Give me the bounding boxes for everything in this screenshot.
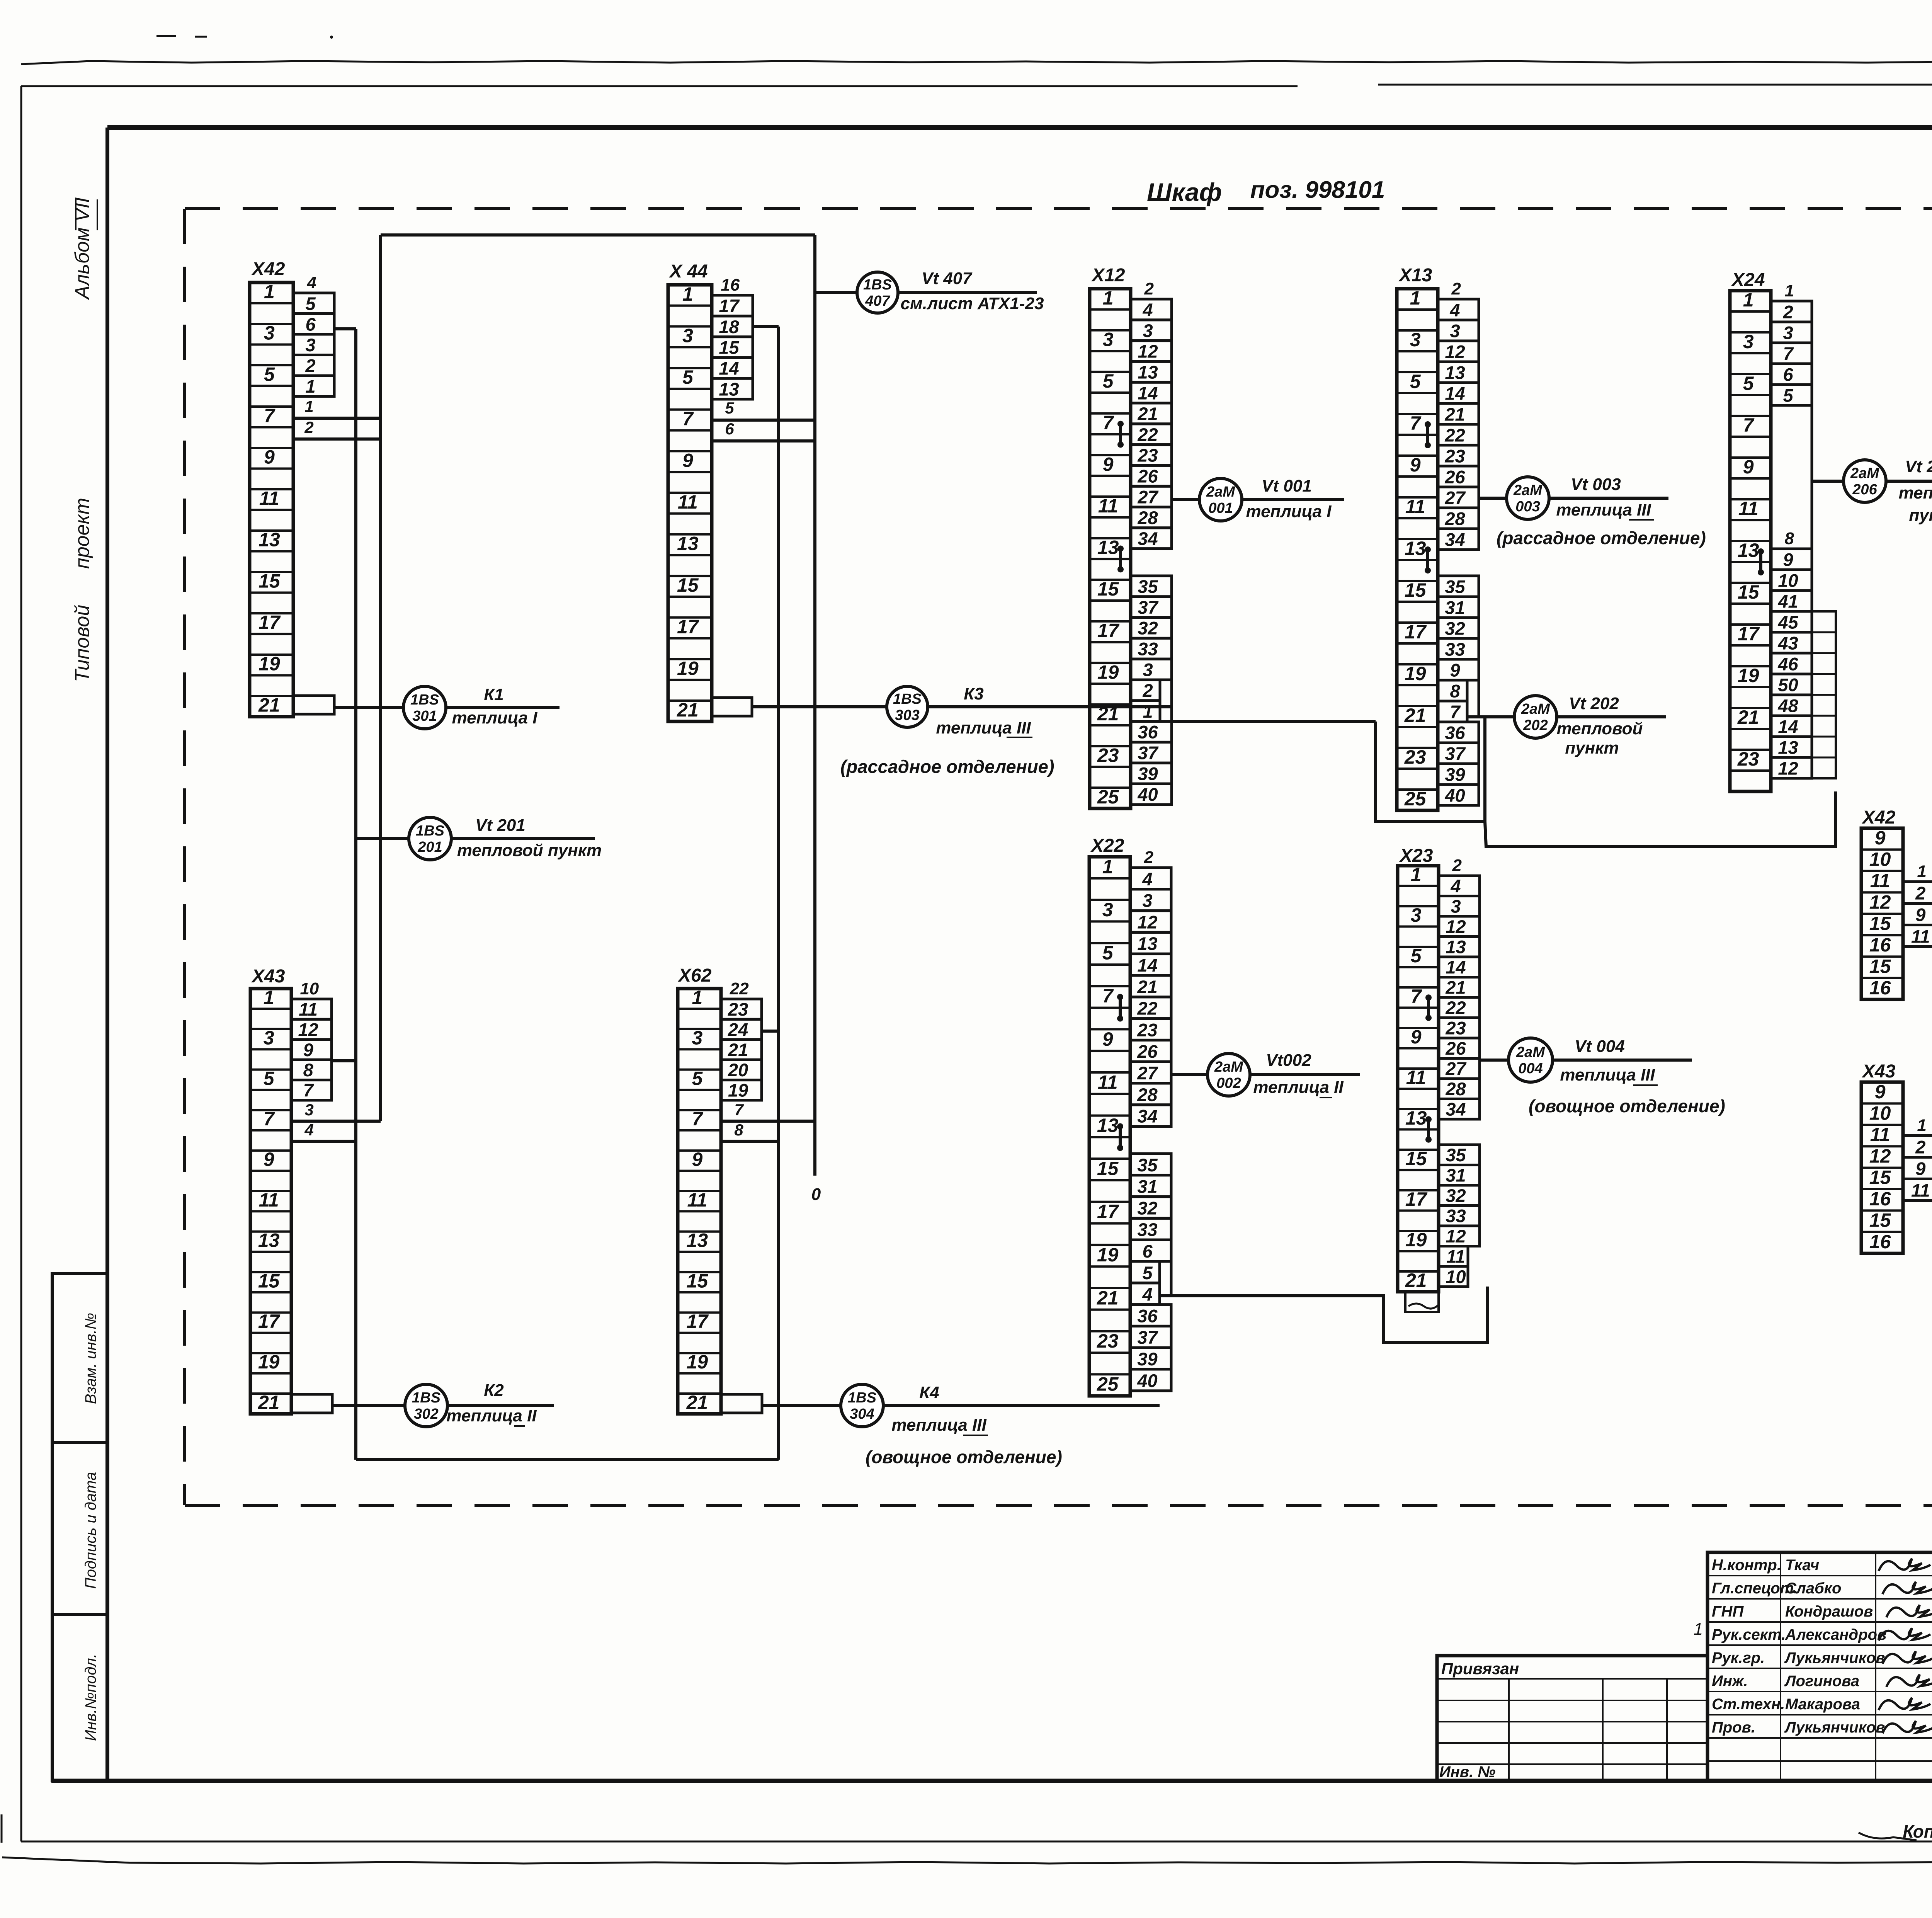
- svg-text:001: 001: [1208, 500, 1233, 516]
- svg-text:21: 21: [1737, 706, 1759, 728]
- cable Vt004 line and labels: [1553, 1059, 1692, 1062]
- svg-text:2аМ: 2аМ: [1521, 701, 1550, 717]
- svg-text:X12: X12: [1091, 265, 1125, 286]
- svg-text:19: 19: [258, 1351, 280, 1373]
- cable circle 1BS302: [405, 1384, 447, 1427]
- svg-text:46: 46: [1777, 654, 1798, 674]
- svg-text:9: 9: [1450, 660, 1460, 680]
- svg-text:Инв. №: Инв. №: [1439, 1763, 1495, 1780]
- svg-text:Макарова: Макарова: [1785, 1696, 1860, 1713]
- svg-text:Лукьянчиков: Лукьянчиков: [1784, 1719, 1885, 1736]
- wire to cable circle 2aM003: [1479, 497, 1507, 500]
- svg-text:28: 28: [1137, 507, 1158, 528]
- svg-text:34: 34: [1137, 1106, 1157, 1127]
- svg-text:теплица III: теплица III: [1560, 1065, 1655, 1084]
- cable Vt002 line and labels: [1250, 1073, 1360, 1076]
- svg-text:407: 407: [865, 293, 890, 309]
- svg-text:12: 12: [1138, 341, 1158, 362]
- terminal block X13 wire numbers (lower group): [1438, 576, 1479, 805]
- wire from X22 to X23 bottom: [1170, 1262, 1173, 1296]
- wire from bus D to cable circle 1BS407: [815, 291, 857, 294]
- svg-text:4: 4: [306, 273, 316, 292]
- svg-text:X22: X22: [1090, 836, 1124, 856]
- svg-text:Привязан: Привязан: [1441, 1659, 1519, 1678]
- X22 terminal jumper 7-8: [1117, 994, 1123, 1022]
- scan speck left edge bottom: [1, 1814, 3, 1843]
- svg-text:13: 13: [259, 529, 280, 551]
- X44 cable stub terminal 21: [712, 698, 752, 716]
- svg-text:К2: К2: [484, 1381, 504, 1400]
- svg-text:23: 23: [1445, 1018, 1466, 1038]
- svg-text:К4: К4: [919, 1383, 939, 1402]
- cable Vt001 line and labels: [1242, 498, 1344, 501]
- svg-text:X 44: X 44: [668, 261, 708, 282]
- svg-text:X24: X24: [1731, 270, 1765, 290]
- svg-text:тепловой: тепловой: [1557, 719, 1643, 738]
- svg-text:3: 3: [1411, 904, 1422, 926]
- X24 tall empty wire cell: [1771, 405, 1812, 549]
- sheet inner thin border top: [21, 85, 1298, 87]
- bus wire C vertical: [777, 327, 780, 1460]
- svg-text:16: 16: [1869, 1231, 1891, 1253]
- terminal block X22 wire numbers (upper group): [1130, 848, 1171, 1127]
- X62 cable stub terminal 21: [721, 1394, 762, 1413]
- svg-text:13: 13: [1738, 539, 1759, 561]
- svg-text:2: 2: [1915, 1137, 1925, 1157]
- wire from X43 stub to cable circle 1BS302: [332, 1404, 405, 1407]
- svg-text:7: 7: [1411, 985, 1422, 1007]
- svg-text:9: 9: [303, 1040, 313, 1060]
- svg-text:пункт: пункт: [1909, 506, 1932, 525]
- svg-text:2aМ: 2aМ: [1206, 484, 1235, 500]
- svg-text:19: 19: [677, 657, 699, 679]
- svg-text:28: 28: [1445, 1079, 1466, 1099]
- svg-text:Vt 004: Vt 004: [1575, 1037, 1625, 1056]
- sheet bottom scan edge (wavy line): [2, 1857, 1932, 1864]
- svg-text:2аМ: 2аМ: [1850, 465, 1879, 482]
- svg-text:Vt 407: Vt 407: [922, 269, 973, 288]
- wire from bus A to cable circle 1BS201: [356, 837, 409, 840]
- svg-text:11: 11: [299, 999, 318, 1019]
- svg-text:пункт: пункт: [1565, 739, 1619, 757]
- terminal block X22 wire numbers (lower group): [1130, 1154, 1171, 1391]
- svg-text:25: 25: [1097, 786, 1119, 808]
- svg-text:0: 0: [811, 1185, 821, 1204]
- cable Vt407 line and labels: [898, 291, 1037, 294]
- svg-text:13: 13: [258, 1230, 280, 1251]
- wire to cable circle 2aM202 (Vt202): [1478, 680, 1480, 717]
- svg-text:(овощное отделение): (овощное отделение): [866, 1447, 1062, 1467]
- svg-text:теплица I: теплица I: [1246, 502, 1332, 521]
- X24 terminal jumper 13-14: [1758, 548, 1764, 575]
- svg-text:7: 7: [264, 1108, 275, 1130]
- svg-text:33: 33: [1138, 639, 1158, 659]
- svg-text:32: 32: [1445, 618, 1465, 638]
- svg-text:13: 13: [1446, 937, 1466, 957]
- svg-text:11: 11: [1406, 1067, 1426, 1088]
- svg-text:15: 15: [1097, 578, 1119, 600]
- svg-text:32: 32: [1446, 1185, 1466, 1206]
- svg-text:(овощное отделение): (овощное отделение): [1529, 1096, 1725, 1116]
- svg-text:21: 21: [686, 1392, 708, 1413]
- svg-text:11: 11: [259, 488, 279, 509]
- svg-text:1: 1: [1410, 287, 1421, 309]
- cable circle 1BS201: [409, 817, 451, 860]
- svg-text:23: 23: [1097, 744, 1119, 766]
- svg-text:21: 21: [258, 1392, 280, 1413]
- svg-text:15: 15: [258, 1270, 280, 1292]
- svg-text:3: 3: [1143, 320, 1153, 341]
- wire to cable circle 2aM001: [1172, 498, 1200, 501]
- wire from X62 stub to cable circle 1BS304: [762, 1404, 841, 1407]
- svg-text:25: 25: [1404, 788, 1427, 810]
- svg-text:22: 22: [1444, 425, 1465, 445]
- svg-text:15: 15: [719, 337, 739, 358]
- svg-text:14: 14: [1137, 955, 1157, 975]
- svg-text:Шкаф: Шкаф: [1147, 178, 1222, 206]
- cable Vt206 line and labels: [1886, 480, 1932, 483]
- svg-text:7: 7: [264, 405, 276, 427]
- routing wire around X13 bottom: [1376, 717, 1485, 822]
- svg-text:Рук.сект.: Рук.сект.: [1712, 1626, 1786, 1643]
- svg-text:1: 1: [692, 987, 702, 1008]
- svg-text:35: 35: [1137, 1155, 1158, 1175]
- svg-text:3: 3: [682, 325, 693, 346]
- bus top horizontal wire: [381, 233, 815, 237]
- svg-text:43: 43: [1777, 633, 1798, 653]
- svg-text:9: 9: [1875, 827, 1886, 849]
- svg-text:К3: К3: [964, 684, 984, 703]
- terminal block X23 wire numbers (upper group): [1439, 856, 1480, 1120]
- svg-text:Рук.гр.: Рук.гр.: [1712, 1649, 1765, 1666]
- terminal block X44 wire numbers 16,17,18,15,14,13: [712, 276, 753, 399]
- svg-text:15: 15: [1097, 1158, 1119, 1179]
- wire from X44 stub to cable circle 1BS303: [752, 705, 887, 708]
- svg-text:Альбом VII: Альбом VII: [71, 197, 94, 300]
- svg-text:Vt 206: Vt 206: [1905, 457, 1932, 476]
- svg-text:11: 11: [1405, 496, 1425, 517]
- svg-text:24: 24: [728, 1019, 748, 1040]
- svg-text:4: 4: [1449, 300, 1460, 320]
- svg-text:3: 3: [1103, 328, 1114, 350]
- svg-text:13: 13: [687, 1230, 708, 1251]
- svg-text:4: 4: [1142, 1284, 1152, 1305]
- svg-text:1: 1: [1743, 289, 1754, 311]
- svg-text:8: 8: [1784, 529, 1794, 548]
- cable Vt003 line and labels: [1549, 497, 1668, 500]
- svg-text:39: 39: [1138, 763, 1158, 784]
- svg-text:Типовой: Типовой: [71, 605, 94, 682]
- svg-text:13: 13: [1097, 536, 1119, 558]
- svg-text:1: 1: [1102, 856, 1113, 877]
- svg-text:23: 23: [1137, 445, 1158, 466]
- svg-text:2аМ: 2аМ: [1214, 1059, 1243, 1075]
- svg-text:23: 23: [1444, 446, 1465, 466]
- svg-text:5: 5: [692, 1067, 703, 1089]
- svg-text:10: 10: [1778, 570, 1798, 591]
- svg-text:12: 12: [1869, 1145, 1891, 1167]
- svg-text:3: 3: [1743, 331, 1754, 352]
- drawing frame (thick): [107, 125, 1932, 130]
- svg-text:2: 2: [304, 418, 313, 436]
- svg-text:2: 2: [1451, 279, 1461, 298]
- terminal block X62 wire numbers 22,23,24,21,20,19: [721, 979, 762, 1101]
- bus bottom horizontal wire: [356, 1458, 779, 1461]
- cable circle 2aM004: [1509, 1038, 1553, 1082]
- svg-text:3: 3: [1783, 322, 1793, 343]
- svg-text:19: 19: [687, 1351, 708, 1373]
- svg-text:Подпись и дата: Подпись и дата: [82, 1472, 99, 1589]
- svg-text:11: 11: [1738, 498, 1759, 519]
- svg-text:теплица II: теплица II: [446, 1406, 537, 1425]
- svg-text:Vt 001: Vt 001: [1262, 477, 1312, 495]
- svg-text:39: 39: [1137, 1349, 1157, 1369]
- svg-text:тепловой: тепловой: [1899, 483, 1932, 502]
- X12 terminal jumper 13-14: [1117, 546, 1124, 573]
- wire from X62 box 24 to bus C: [762, 1030, 779, 1033]
- svg-text:23: 23: [728, 999, 748, 1019]
- sheet thin border bottom: [21, 1841, 1932, 1843]
- svg-text:3: 3: [1450, 320, 1460, 341]
- svg-text:11: 11: [1911, 926, 1930, 946]
- svg-text:21: 21: [1137, 977, 1157, 997]
- svg-text:21: 21: [1445, 977, 1466, 998]
- svg-text:16: 16: [1869, 934, 1891, 956]
- svg-text:14: 14: [1445, 383, 1465, 403]
- cable Vt201 line and labels: [451, 837, 595, 840]
- svg-text:X43: X43: [1861, 1061, 1896, 1082]
- svg-text:1: 1: [264, 987, 274, 1008]
- wire from X42 stub to cable circle 1BS301: [334, 706, 404, 709]
- svg-text:17: 17: [1097, 620, 1120, 642]
- cable Vt202 line and labels: [1557, 715, 1666, 718]
- svg-text:15: 15: [1869, 1210, 1891, 1231]
- wire from X44 box 18 to bus C: [753, 325, 779, 328]
- svg-text:31: 31: [1446, 1165, 1466, 1186]
- svg-text:5: 5: [682, 366, 694, 388]
- svg-text:8: 8: [1450, 681, 1460, 701]
- svg-text:12: 12: [1446, 916, 1466, 937]
- svg-text:13: 13: [719, 379, 739, 399]
- svg-text:3: 3: [1143, 659, 1153, 680]
- cable K2 line and labels: [447, 1404, 554, 1407]
- svg-text:Кондрашов: Кондрашов: [1785, 1603, 1873, 1620]
- svg-text:16: 16: [1869, 977, 1891, 999]
- svg-text:3: 3: [1410, 329, 1421, 351]
- cable K3 line and labels: [927, 705, 1172, 708]
- svg-text:X13: X13: [1398, 265, 1432, 286]
- svg-text:теплица III: теплица III: [1556, 500, 1651, 519]
- svg-text:12: 12: [1446, 1226, 1466, 1246]
- svg-text:27: 27: [1444, 487, 1466, 508]
- svg-text:22: 22: [1137, 998, 1157, 1019]
- svg-text:50: 50: [1778, 674, 1798, 695]
- svg-text:Vt 003: Vt 003: [1571, 475, 1621, 494]
- svg-text:13: 13: [1097, 1115, 1119, 1136]
- svg-text:17: 17: [677, 616, 699, 638]
- svg-text:5: 5: [725, 399, 734, 417]
- svg-text:Н.контр.: Н.контр.: [1712, 1557, 1781, 1574]
- svg-text:17: 17: [719, 296, 740, 316]
- svg-text:13: 13: [1137, 933, 1157, 954]
- svg-text:31: 31: [1445, 597, 1465, 618]
- svg-text:1BS: 1BS: [416, 823, 444, 839]
- svg-text:1: 1: [1917, 862, 1926, 881]
- svg-text:7: 7: [1743, 414, 1755, 436]
- cable K4 line and labels: [883, 1404, 1160, 1407]
- svg-text:15: 15: [1869, 913, 1891, 934]
- svg-text:3: 3: [1102, 899, 1113, 921]
- svg-text:20: 20: [728, 1060, 748, 1080]
- svg-text:8: 8: [734, 1121, 743, 1139]
- svg-text:33: 33: [1445, 639, 1465, 659]
- svg-text:12: 12: [1869, 891, 1891, 913]
- svg-text:202: 202: [1523, 717, 1548, 734]
- terminal block X12 wire numbers (lower group): [1131, 576, 1172, 805]
- svg-text:1BS: 1BS: [412, 1390, 440, 1406]
- svg-text:9: 9: [264, 1149, 274, 1170]
- wire to cable circle 2aM002: [1171, 1073, 1207, 1076]
- X12 terminal jumper 7-8: [1117, 421, 1124, 448]
- svg-text:9: 9: [1102, 1028, 1113, 1050]
- svg-text:теплица I: теплица I: [452, 708, 538, 727]
- svg-text:36: 36: [1138, 722, 1158, 742]
- svg-text:12: 12: [1778, 758, 1798, 778]
- svg-text:23: 23: [1737, 748, 1759, 770]
- X22 terminal jumper 13-14: [1117, 1123, 1123, 1151]
- svg-text:10: 10: [300, 979, 319, 998]
- wire from X12 to routing bus (terminal 21): [1170, 680, 1173, 722]
- svg-text:9: 9: [1743, 456, 1754, 478]
- wire from X42 box 6 to bus A: [334, 327, 356, 330]
- svg-text:37: 37: [1445, 743, 1466, 764]
- svg-text:Vt002: Vt002: [1266, 1051, 1311, 1070]
- svg-text:16: 16: [1869, 1188, 1891, 1210]
- svg-text:13: 13: [1778, 737, 1798, 757]
- svg-text:4: 4: [1142, 300, 1153, 320]
- svg-text:13: 13: [1405, 1107, 1427, 1129]
- svg-text:17: 17: [1738, 623, 1760, 645]
- svg-text:9: 9: [1783, 549, 1793, 570]
- svg-text:Инв.№подл.: Инв.№подл.: [82, 1654, 99, 1741]
- svg-text:15: 15: [687, 1270, 709, 1292]
- svg-text:4: 4: [1142, 869, 1152, 889]
- svg-text:26: 26: [1444, 466, 1465, 487]
- X23 bottom spare cell: [1405, 1292, 1439, 1312]
- svg-text:26: 26: [1445, 1038, 1466, 1059]
- svg-text:2: 2: [1915, 883, 1925, 903]
- terminal block X23 wire numbers (lower group): [1439, 1145, 1480, 1287]
- wire from X43 box 9 to bus A: [332, 1059, 356, 1062]
- terminal block X12 wire numbers (upper group): [1131, 279, 1172, 549]
- svg-text:11: 11: [259, 1189, 279, 1211]
- svg-text:7: 7: [1450, 701, 1461, 722]
- svg-text:X23: X23: [1399, 846, 1433, 866]
- svg-text:6: 6: [1783, 364, 1793, 385]
- svg-text:Vt 202: Vt 202: [1569, 694, 1619, 713]
- svg-text:21: 21: [1097, 1287, 1119, 1309]
- svg-text:32: 32: [1137, 1198, 1157, 1218]
- svg-text:17: 17: [1405, 1188, 1428, 1210]
- svg-text:5: 5: [264, 1067, 275, 1089]
- svg-text:13: 13: [1405, 538, 1426, 559]
- X23 terminal jumper 13-14: [1425, 1116, 1432, 1143]
- svg-text:6: 6: [305, 314, 316, 334]
- svg-text:5: 5: [1743, 373, 1754, 394]
- svg-text:32: 32: [1138, 618, 1158, 638]
- wire to cable circle 2aM206: [1812, 480, 1844, 483]
- svg-text:17: 17: [258, 1310, 281, 1332]
- svg-text:31: 31: [1137, 1176, 1157, 1197]
- svg-text:7: 7: [734, 1101, 744, 1119]
- svg-text:34: 34: [1445, 529, 1465, 550]
- svg-text:201: 201: [417, 839, 442, 855]
- svg-text:5: 5: [1142, 1263, 1153, 1283]
- svg-text:Ткач: Ткач: [1785, 1557, 1819, 1574]
- svg-text:4: 4: [304, 1121, 313, 1139]
- svg-text:003: 003: [1515, 499, 1540, 515]
- svg-text:40: 40: [1137, 784, 1158, 805]
- svg-text:ГНП: ГНП: [1712, 1603, 1744, 1620]
- cable circle 2aM002: [1207, 1053, 1250, 1096]
- svg-text:2: 2: [1142, 680, 1153, 701]
- bus wire D vertical: [813, 235, 816, 1176]
- svg-text:17: 17: [1097, 1201, 1119, 1222]
- svg-text:5: 5: [305, 293, 316, 314]
- X43 cable stub terminal 21: [291, 1394, 332, 1413]
- svg-text:39: 39: [1445, 764, 1465, 785]
- wire to cable circle 2aM004: [1480, 1059, 1509, 1062]
- svg-text:5: 5: [1410, 371, 1421, 392]
- svg-text:19: 19: [1405, 663, 1426, 684]
- svg-text:23: 23: [1097, 1330, 1119, 1352]
- svg-text:теплица III: теплица III: [891, 1416, 986, 1435]
- svg-text:15: 15: [1869, 956, 1891, 977]
- svg-text:41: 41: [1777, 591, 1798, 611]
- cabinet boundary (dashed box) Шкаф поз.998101: [185, 207, 1932, 210]
- svg-text:34: 34: [1446, 1099, 1466, 1120]
- svg-text:1: 1: [264, 281, 275, 303]
- terminal block X43 wire numbers: [1903, 1116, 1932, 1201]
- bus wire B vertical (box left edge): [379, 235, 382, 1121]
- cable K1 line and labels: [446, 706, 560, 709]
- svg-text:17: 17: [1405, 621, 1427, 643]
- svg-text:5: 5: [1103, 370, 1114, 392]
- svg-text:Лукьянчиков: Лукьянчиков: [1784, 1649, 1885, 1666]
- terminal block X24 wire numbers (upper group 1,2,3,7,6,5): [1771, 281, 1812, 405]
- svg-text:12: 12: [1137, 912, 1157, 932]
- svg-text:21: 21: [728, 1040, 748, 1060]
- svg-text:2: 2: [305, 355, 315, 376]
- svg-text:теплица II: теплица II: [1253, 1078, 1344, 1097]
- svg-text:22: 22: [1445, 997, 1466, 1018]
- svg-text:9: 9: [264, 446, 275, 468]
- cable circle 2aM202: [1514, 696, 1557, 738]
- svg-text:21: 21: [258, 694, 280, 716]
- svg-text:28: 28: [1137, 1084, 1158, 1105]
- svg-text:1BS: 1BS: [893, 691, 922, 707]
- svg-text:1: 1: [1784, 281, 1794, 300]
- svg-text:7: 7: [692, 1108, 703, 1130]
- svg-text:301: 301: [412, 708, 437, 724]
- X13 terminal jumper 7-8: [1425, 421, 1431, 448]
- svg-text:1BS: 1BS: [410, 692, 439, 708]
- svg-text:45: 45: [1777, 612, 1798, 632]
- svg-text:11: 11: [1098, 1071, 1118, 1093]
- cable circle 1BS301: [403, 686, 446, 729]
- cable circle 2aM206: [1844, 460, 1886, 502]
- cable circle 1BS407: [857, 272, 898, 313]
